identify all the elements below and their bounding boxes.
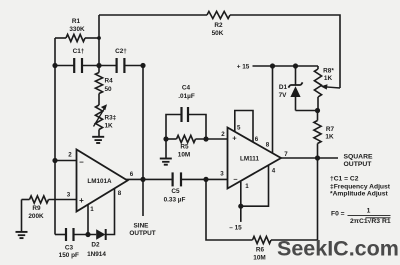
node square output: [315, 155, 320, 160]
svg-text:R1: R1: [72, 18, 81, 25]
svg-text:1K: 1K: [324, 75, 333, 82]
wire pin 7 output: [281, 157, 338, 159]
svg-text:50: 50: [105, 86, 113, 93]
node C1-C2 junction: [96, 63, 101, 68]
svg-text:.01µF: .01µF: [178, 93, 195, 100]
capacitor C3: [59, 228, 79, 259]
node pin1-C3-D2: [85, 232, 90, 237]
wire R4 to R3: [98, 94, 100, 106]
svg-text:1: 1: [367, 207, 371, 214]
svg-text:R8*: R8*: [323, 68, 334, 75]
svg-text:R4: R4: [105, 78, 114, 85]
wire left vertical (C1/R1 node down to C3): [54, 38, 56, 235]
pin 2 label: [68, 151, 72, 158]
formula F0: [331, 207, 391, 225]
capacitor C5: [164, 172, 186, 203]
svg-text:6: 6: [130, 171, 134, 178]
node C1 left: [52, 63, 57, 68]
resistor R6: [253, 236, 272, 261]
svg-text:SINE: SINE: [134, 223, 150, 230]
svg-text:7: 7: [284, 151, 288, 158]
wire center vertical top: [98, 15, 100, 73]
svg-text:–: –: [233, 174, 237, 183]
svg-text:0.33 µF: 0.33 µF: [164, 196, 186, 203]
svg-text:3: 3: [220, 171, 224, 178]
svg-text:C3: C3: [65, 245, 74, 252]
wire C1/C2 row: [55, 65, 143, 67]
svg-text:1N914: 1N914: [87, 251, 106, 258]
wire R6 riser left: [206, 179, 253, 240]
svg-text:4: 4: [272, 168, 276, 175]
wire C3 to node: [74, 234, 97, 236]
node pin1-pin4: [238, 204, 243, 209]
svg-text:C2†: C2†: [115, 48, 127, 55]
pin 8 label LM111: [266, 142, 270, 149]
wire C2 feedback vertical: [142, 66, 144, 180]
balance loop pins 5-6: [235, 111, 253, 143]
note C1=C2: [330, 176, 359, 183]
wire pin6 output: [126, 178, 173, 180]
svg-text:R6: R6: [256, 247, 265, 254]
pin 4 label: [272, 168, 276, 175]
svg-text:R2: R2: [214, 22, 223, 29]
note frequency adjust: [330, 183, 391, 190]
svg-text:6: 6: [255, 136, 259, 143]
pin 8 label: [118, 190, 122, 197]
capacitor C2: [115, 48, 127, 73]
svg-text:1: 1: [245, 183, 249, 190]
svg-text:7V: 7V: [279, 92, 288, 99]
resistor R7: [314, 111, 335, 159]
svg-text:2: 2: [68, 151, 72, 158]
svg-text:F0 =: F0 =: [331, 211, 345, 218]
wire C5 to LM111 pin3: [181, 178, 228, 180]
watermark SeekIC.com: [277, 237, 399, 261]
pin 5 label: [237, 125, 241, 132]
svg-text:– 15: – 15: [229, 225, 242, 232]
wire pin 4 riser: [241, 165, 269, 206]
wire sine output stub: [142, 179, 144, 216]
svg-text:8: 8: [118, 190, 122, 197]
ground R3: [92, 137, 104, 143]
svg-text:200K: 200K: [28, 213, 44, 220]
svg-text:+ 15: + 15: [237, 64, 250, 71]
potentiometer R8: [314, 66, 334, 111]
svg-text:1K: 1K: [325, 134, 334, 141]
svg-text:–: –: [79, 158, 84, 167]
wire pin2 input: [55, 160, 77, 162]
wire D1 to R8 bottom: [296, 110, 318, 112]
svg-text:‡Frequency Adjust: ‡Frequency Adjust: [330, 183, 391, 190]
pin 3 label: [67, 192, 71, 199]
wire D2 to pin 8 riser: [106, 188, 115, 234]
label +15: [237, 64, 250, 71]
pin 6 label LM111: [255, 136, 259, 143]
node R7-R8-D1: [315, 108, 320, 113]
svg-text:R5: R5: [180, 144, 189, 151]
node inverting input: [52, 158, 57, 163]
resistor R5: [177, 135, 196, 158]
node R5 left: [163, 136, 168, 141]
capacitor C4 loop: [166, 115, 206, 140]
node sine output: [140, 177, 145, 182]
comparator U2 LM111: [228, 128, 282, 189]
svg-text:C4: C4: [182, 85, 191, 92]
resistor R3 variable: [94, 104, 117, 129]
pin 3 label LM111: [220, 171, 224, 178]
pin 2 label LM111: [221, 131, 225, 138]
node R1-right junction: [97, 36, 101, 40]
svg-text:R7: R7: [326, 126, 335, 133]
diode D2 1N914: [87, 229, 106, 258]
svg-text:*Amplitude Adjust: *Amplitude Adjust: [330, 190, 388, 197]
svg-text:R9: R9: [32, 205, 41, 212]
node D1 tap: [293, 63, 298, 68]
wire top feedback from node A to R2: [99, 14, 207, 16]
svg-text:C1†: C1†: [73, 48, 85, 55]
wire pin 1 riser LM111: [240, 182, 242, 207]
ground R5: [160, 159, 172, 165]
svg-text:50K: 50K: [212, 30, 224, 37]
wire pin 8 riser to +15: [272, 66, 274, 153]
svg-text:3: 3: [67, 192, 71, 199]
wire R9 left to ground: [21, 200, 23, 232]
wire R5 row: [166, 138, 228, 140]
svg-text:5: 5: [237, 125, 241, 132]
op-amp U1 LM101A: [77, 150, 128, 212]
node C2 right: [140, 63, 145, 68]
pin 1 label: [90, 206, 94, 213]
resistor R2: [207, 11, 230, 37]
svg-text:R3‡: R3‡: [105, 115, 117, 122]
node pin3-R6: [203, 177, 208, 182]
svg-text:+: +: [232, 134, 237, 143]
svg-text:150 pF: 150 pF: [59, 252, 79, 259]
svg-text:OUTPUT: OUTPUT: [129, 230, 155, 237]
zener D1 7V: [279, 66, 303, 111]
wire R5 ground stem: [165, 139, 167, 159]
svg-text:D1: D1: [279, 84, 288, 91]
svg-text:SQUARE: SQUARE: [343, 154, 373, 161]
svg-text:2: 2: [221, 131, 225, 138]
node pin8 tap: [270, 63, 275, 68]
label -15: [229, 225, 242, 232]
label square output: [343, 154, 373, 169]
capacitor C1: [73, 48, 85, 73]
svg-text:330K: 330K: [69, 26, 85, 33]
wire C3 branch left: [55, 234, 66, 236]
ground R9: [16, 232, 28, 238]
R8 wiper arrow: [321, 84, 340, 89]
pin 6 label: [130, 171, 134, 178]
label sine output: [129, 223, 155, 238]
wire pin 1 riser: [87, 205, 89, 235]
svg-text:1K: 1K: [105, 123, 114, 130]
svg-text:+: +: [79, 196, 84, 205]
svg-text:10M: 10M: [178, 152, 190, 159]
svg-text:10M: 10M: [253, 255, 265, 262]
svg-text:LM101A: LM101A: [87, 178, 112, 185]
wire -15 stub: [240, 206, 242, 222]
svg-text:OUTPUT: OUTPUT: [344, 161, 373, 168]
svg-text:LM111: LM111: [240, 156, 259, 163]
svg-text:1: 1: [90, 206, 94, 213]
resistor R1: [55, 18, 99, 42]
svg-text:8: 8: [266, 142, 270, 149]
wire R3 to ground: [98, 130, 100, 137]
wire R6 to square output node: [271, 158, 318, 240]
wire R2 to R8 wiper (right drop): [230, 15, 340, 88]
capacitor C4: [178, 85, 195, 123]
svg-text:C5: C5: [171, 188, 180, 195]
pin 1 label LM111: [245, 183, 249, 190]
svg-text:†C1 = C2: †C1 = C2: [330, 176, 359, 183]
svg-text:D2: D2: [91, 242, 100, 249]
note amplitude adjust: [330, 190, 388, 197]
svg-text:SeekIC.com: SeekIC.com: [277, 237, 399, 261]
node R5 right: [203, 136, 208, 141]
resistor R4: [95, 73, 113, 94]
resistor R9: [22, 196, 77, 220]
wire +15 rail: [253, 65, 319, 67]
pin 7 label: [284, 151, 288, 158]
